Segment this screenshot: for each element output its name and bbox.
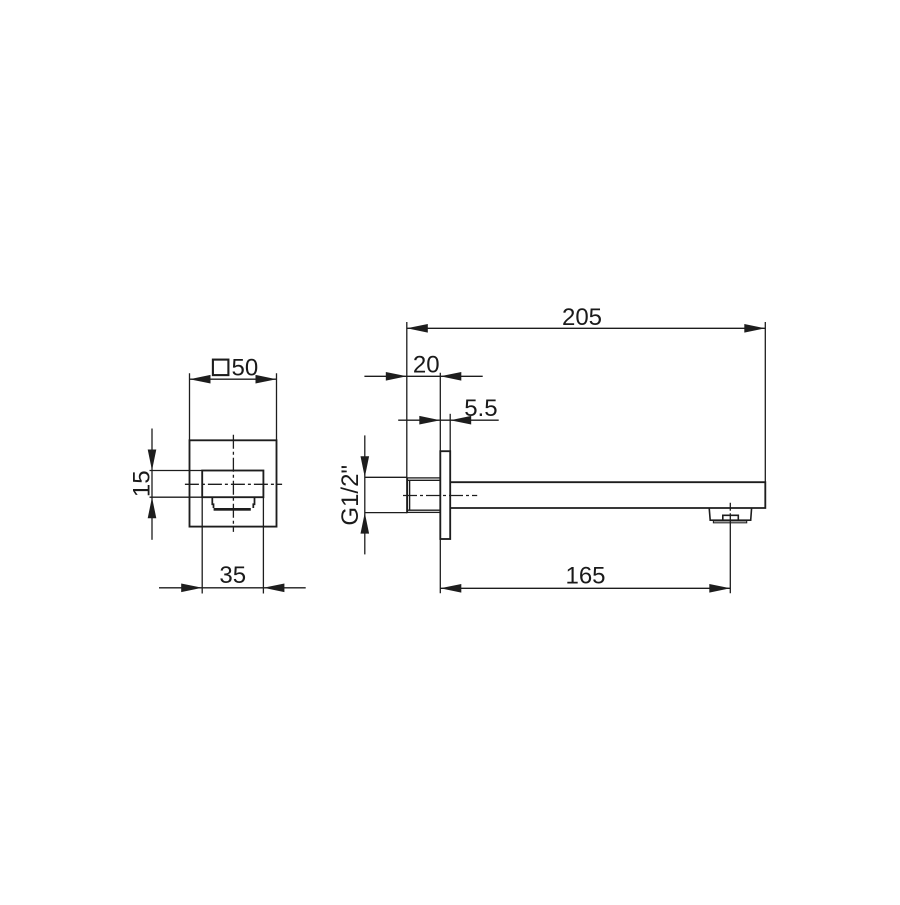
dimension square-50: square symbol	[213, 360, 229, 376]
dimension square-50: extension lines	[190, 373, 277, 440]
svg-text:20: 20	[413, 351, 440, 378]
dimension G1/2: dimension line vertical	[364, 435, 366, 554]
front view: spout end face 35x15	[202, 471, 263, 498]
side view: threaded nipple outer outline	[407, 478, 440, 513]
dimension 165: dimension line	[440, 587, 730, 589]
svg-text:165: 165	[565, 562, 605, 589]
side view: wall face extension line above and below plate	[439, 373, 441, 594]
dimension 35: arrows outside	[181, 584, 202, 593]
dimension 205: dimension line	[407, 327, 766, 329]
front view: spout side extension lines down to 35-dim	[202, 497, 263, 593]
dimension square-50: dimension line	[190, 378, 277, 380]
svg-text:50: 50	[232, 354, 259, 381]
front view: aerator face thick bar	[214, 508, 251, 511]
dimension 205: extension lines	[407, 322, 766, 513]
dimension 205: arrows	[407, 324, 428, 333]
dimension square-50: arrows	[190, 375, 211, 384]
dimension 35: dimension line with tails	[159, 587, 306, 589]
front view: horizontal centerline	[185, 483, 282, 485]
front view: vertical centerline	[232, 435, 234, 532]
side view: aerator housing	[709, 508, 751, 520]
side view: wall plate slab 5.5 thick	[440, 451, 450, 539]
dimension 20: left extension handled by 205 line, arrows outside	[386, 372, 407, 381]
dimension 20: dimension line with tails	[364, 375, 482, 377]
svg-text:G1/2": G1/2"	[337, 465, 364, 526]
side view: aerator centerline	[729, 503, 731, 593]
svg-text:35: 35	[219, 562, 246, 589]
dimension 15: arrows outside	[148, 450, 157, 471]
side view: main centerline	[403, 495, 477, 497]
svg-text:15: 15	[128, 470, 155, 497]
dimension 15: dimension line vertical	[151, 429, 153, 540]
dimension 15: extension lines	[150, 471, 203, 498]
dimension 5.5: right extension line	[449, 414, 451, 451]
dimension 165: arrows	[440, 584, 461, 593]
dimension G1/2: extension lines	[365, 477, 408, 512]
dimension G1/2: arrows outside	[361, 456, 370, 477]
side view: spout tube outline	[450, 482, 765, 508]
side view: nipple thread root lines	[407, 480, 440, 510]
front view: wall plate square 50x50	[190, 440, 277, 526]
dimension 5.5: dimension line with tails	[398, 419, 499, 421]
svg-text:5.5: 5.5	[464, 395, 497, 422]
side view: aerator rim ring	[713, 521, 746, 523]
dimension 5.5: arrows outside	[419, 416, 440, 425]
side view: aerator insert	[723, 515, 739, 520]
front view: aerator cup outline	[212, 497, 254, 508]
svg-text:205: 205	[562, 304, 602, 331]
